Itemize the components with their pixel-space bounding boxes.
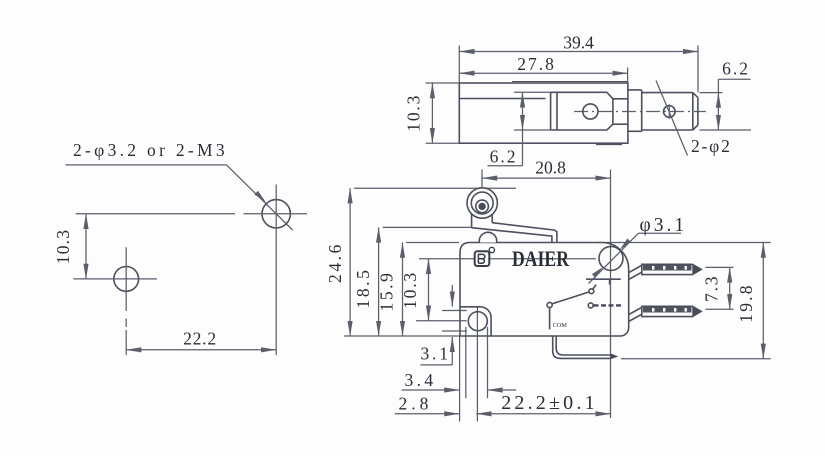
extension verticals below body xyxy=(459,336,461,422)
extension line roller top (24.6) xyxy=(354,187,516,189)
svg-text:22.2±0.1: 22.2±0.1 xyxy=(501,392,598,414)
svg-text:39.4: 39.4 xyxy=(563,33,594,53)
mechanism contact point circle xyxy=(589,285,596,294)
plunger dome xyxy=(479,232,496,242)
svg-text:φ3.1: φ3.1 xyxy=(640,215,688,236)
extension line body top left (15.9) xyxy=(406,242,459,244)
extension lines 7.3 xyxy=(706,266,734,268)
dimension 10.3 (left view) xyxy=(53,214,86,279)
svg-text:18.5: 18.5 xyxy=(353,267,373,308)
svg-text:COM: COM xyxy=(553,322,568,329)
hole B (bottom left hole) xyxy=(74,247,158,355)
svg-text:10.3: 10.3 xyxy=(53,229,73,264)
dimension 2.8 xyxy=(395,394,460,414)
terminal COM (bent, bottom) xyxy=(553,336,619,359)
dimension 6.2 (housing width) xyxy=(488,92,523,166)
extension line terminal bottom (19.8) xyxy=(621,358,771,360)
svg-text:10.3: 10.3 xyxy=(404,94,424,132)
housing hole circle xyxy=(583,104,598,119)
plunger housing (inner rectangle) xyxy=(514,92,628,130)
switch body outline xyxy=(460,243,629,337)
svg-text:24.6: 24.6 xyxy=(325,242,345,283)
dimension 7.3 xyxy=(702,267,730,309)
svg-text:2-φ3.2 or 2-M3: 2-φ3.2 or 2-M3 xyxy=(73,140,228,160)
mounting hole top right xyxy=(599,246,623,270)
extension line hole top tangent xyxy=(442,310,467,312)
mounting hole pocket outline (bottom left) xyxy=(460,307,491,336)
dimension 10.3 (top view height) xyxy=(404,83,460,143)
dimension 10.3 (side view) xyxy=(400,259,429,321)
dimension 3.1 xyxy=(420,285,452,365)
hole A (top right hole) xyxy=(76,185,307,356)
svg-text:19.8: 19.8 xyxy=(736,283,756,322)
leader line to top hole xyxy=(227,165,293,230)
mechanism fixed contact line xyxy=(586,279,621,284)
extension line pivot level (10.3) xyxy=(419,258,596,260)
svg-text:7.3: 7.3 xyxy=(702,275,722,302)
label phi3.1 with leader xyxy=(589,215,688,284)
svg-text:2-φ2: 2-φ2 xyxy=(691,136,732,156)
DAIER logo box xyxy=(475,247,495,266)
dimension 15.9 xyxy=(377,243,403,337)
extension line hole center (10.3 bottom) xyxy=(416,320,467,322)
mechanism spring wire xyxy=(549,308,551,330)
dimension 19.8 xyxy=(736,243,763,359)
extension line hole bottom tangent xyxy=(442,330,467,332)
top view body xyxy=(459,82,628,145)
svg-text:27.8: 27.8 xyxy=(517,54,556,74)
shoulder block xyxy=(628,90,642,131)
dimension 18.5 xyxy=(353,227,379,336)
dimension 3.4 xyxy=(402,370,517,390)
dimension 24.6 xyxy=(325,188,350,336)
dimension 27.8 xyxy=(459,54,627,83)
label 2-phi2 xyxy=(656,81,732,157)
roller lever arm xyxy=(472,206,557,244)
svg-text:6.2: 6.2 xyxy=(490,146,518,166)
dimension 39.4 xyxy=(459,33,698,93)
svg-text:6.2: 6.2 xyxy=(722,59,750,79)
mounting hole bottom left xyxy=(468,312,487,331)
dimension 20.8 xyxy=(482,158,611,419)
svg-text:22.2: 22.2 xyxy=(183,329,217,349)
terminal NC (top) xyxy=(629,264,701,279)
dimension 6.2 (pin diameter) xyxy=(700,59,752,131)
dimension 22.2 +/- 0.1 xyxy=(476,392,610,414)
mechanism pivot circle xyxy=(547,302,552,307)
svg-text:20.8: 20.8 xyxy=(535,158,566,178)
terminal NO (bottom) xyxy=(629,306,701,321)
label 2-phi3.2 or 2-M3 xyxy=(66,140,228,165)
svg-text:10.3: 10.3 xyxy=(400,271,420,309)
label COM xyxy=(553,322,568,329)
mechanism rivet circle with dashed shaft xyxy=(588,303,621,308)
dimension 22.2 (left view) xyxy=(126,329,276,350)
extension line body bottom left xyxy=(344,335,460,337)
pin hole circle xyxy=(664,104,676,119)
svg-text:DAIER: DAIER xyxy=(512,246,570,271)
svg-text:3.4: 3.4 xyxy=(405,370,437,390)
svg-text:2.8: 2.8 xyxy=(399,394,433,414)
mechanism contact arm xyxy=(552,292,590,304)
extension line lever end (18.5) xyxy=(383,226,472,228)
roller xyxy=(467,188,497,218)
extension line body top right (19.8) xyxy=(598,242,771,244)
svg-text:3.1: 3.1 xyxy=(421,344,451,364)
pin (plunger shaft) xyxy=(642,93,698,130)
svg-text:15.9: 15.9 xyxy=(377,270,397,311)
center line (top view axis) xyxy=(574,111,706,113)
